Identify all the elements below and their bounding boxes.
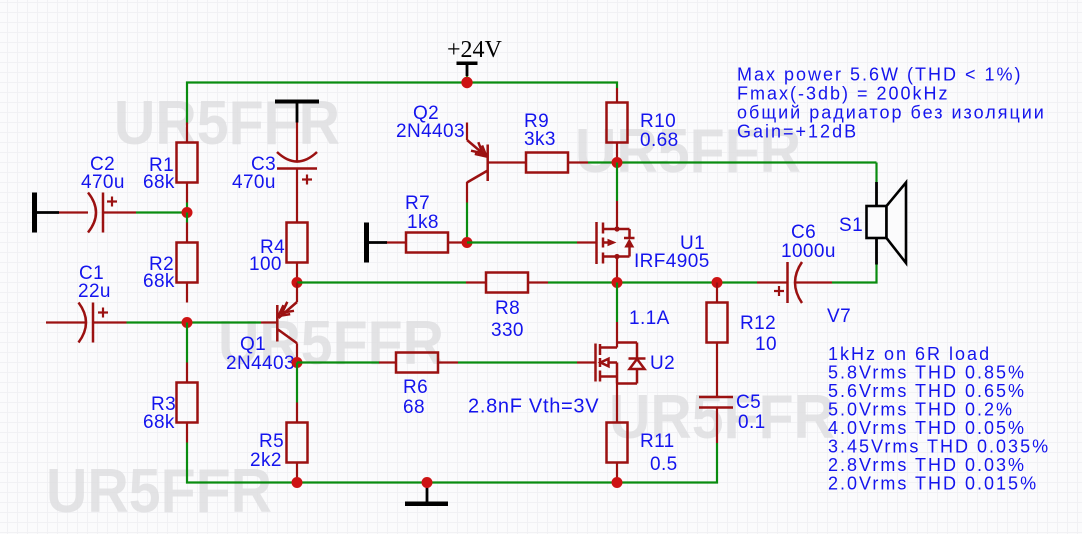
svg-text:IRF4905: IRF4905 — [634, 251, 710, 272]
wire gate net to U1 — [467, 241, 577, 243]
junction node B (R4/Q1 emitter/R8) — [292, 277, 303, 288]
svg-text:R6: R6 — [403, 377, 428, 398]
wire R6 to U2 gate — [458, 361, 577, 363]
svg-text:68k: 68k — [143, 172, 175, 193]
svg-text:UR5FFR: UR5FFR — [114, 89, 340, 158]
svg-text:общий радиатор без изоляции: общий радиатор без изоляции — [737, 102, 1046, 122]
resistor R7 — [387, 233, 467, 253]
svg-text:0.68: 0.68 — [640, 130, 679, 151]
wire top +24V rail — [187, 83, 617, 123]
svg-text:68k: 68k — [143, 271, 175, 292]
svg-text:1.1A: 1.1A — [629, 308, 670, 329]
svg-text:3k3: 3k3 — [524, 129, 556, 150]
op-amp U1 MOSFET IRF4905 — [597, 201, 635, 283]
junction node C — [182, 317, 193, 328]
svg-text:V7: V7 — [827, 306, 851, 327]
svg-text:C6: C6 — [791, 222, 816, 243]
pin U1 gate — [577, 241, 596, 243]
svg-text:1kHz on 6R load: 1kHz on 6R load — [828, 344, 991, 364]
junction R5 bottom — [292, 477, 303, 488]
svg-text:3.45Vrms THD 0.035%: 3.45Vrms THD 0.035% — [828, 436, 1050, 456]
resistor R6 — [379, 353, 458, 373]
resistor R5 — [287, 403, 308, 483]
svg-text:2.0Vrms THD 0.015%: 2.0Vrms THD 0.015% — [828, 473, 1038, 493]
transistor Q1 — [261, 283, 297, 363]
svg-text:5.0Vrms THD 0.2%: 5.0Vrms THD 0.2% — [828, 399, 1014, 419]
transistor U2 MOSFET — [596, 322, 646, 423]
resistor R3 — [177, 363, 198, 443]
transistor Q2 — [467, 123, 526, 203]
svg-text:Max power 5.6W (THD < 1%): Max power 5.6W (THD < 1%) — [737, 64, 1023, 84]
resistor R11 — [607, 423, 628, 483]
annotation block 2 — [828, 344, 1050, 494]
junction +24V rail — [461, 77, 472, 88]
wire U1 drain — [616, 163, 618, 202]
svg-text:100: 100 — [249, 254, 282, 275]
wire Q1 collector net — [297, 361, 379, 363]
svg-text:Fmax(-3db) = 200kHz: Fmax(-3db) = 200kHz — [737, 83, 950, 103]
resistor R8 — [466, 273, 548, 293]
capacitor C6 — [757, 262, 832, 303]
junction node A — [182, 207, 193, 218]
svg-text:R8: R8 — [495, 298, 520, 319]
svg-text:R7: R7 — [405, 193, 430, 214]
svg-text:0.5: 0.5 — [650, 454, 678, 475]
svg-text:R5: R5 — [259, 431, 284, 452]
resistor R9 — [526, 153, 588, 173]
wire net N162 (R9/R10/speaker) — [588, 161, 877, 163]
svg-text:2k2: 2k2 — [250, 450, 282, 471]
svg-text:22u: 22u — [78, 281, 111, 302]
svg-text:C5: C5 — [736, 392, 761, 413]
svg-text:2N4403: 2N4403 — [396, 121, 465, 142]
svg-text:330: 330 — [491, 320, 524, 341]
wire to speaker top — [875, 163, 877, 183]
speaker S1 — [867, 182, 907, 265]
capacitor C5 — [699, 397, 733, 443]
svg-text:R12: R12 — [740, 313, 776, 334]
svg-text:2.8nF Vth=3V: 2.8nF Vth=3V — [468, 396, 599, 418]
input terminal (R7 left) — [364, 223, 387, 263]
svg-text:S1: S1 — [839, 215, 863, 236]
wire Q2 collector to gate net — [466, 203, 468, 243]
wire C2 to node A — [136, 211, 187, 213]
resistor R10 — [607, 88, 628, 163]
svg-text:68k: 68k — [143, 412, 175, 433]
wire C1 to node C — [127, 321, 262, 323]
junction N282 at R12 — [712, 277, 723, 288]
wire R5 top — [296, 363, 298, 403]
svg-text:0.1: 0.1 — [738, 412, 766, 433]
svg-text:U2: U2 — [650, 353, 675, 374]
capacitor C3 — [277, 123, 317, 223]
svg-text:UR5FFR: UR5FFR — [46, 457, 272, 526]
pin U2 gate — [577, 361, 595, 363]
junction gate net — [462, 237, 473, 248]
junction N282 at U1 source — [612, 277, 623, 288]
svg-text:470u: 470u — [81, 172, 125, 193]
svg-text:68: 68 — [403, 397, 425, 418]
junction ground — [422, 477, 433, 488]
ground symbol C3 top — [275, 100, 319, 123]
svg-text:470u: 470u — [232, 172, 276, 193]
input terminal IN2 (C2 left) — [32, 193, 59, 233]
wire node C down — [186, 323, 188, 363]
svg-text:5.6Vrms THD 0.65%: 5.6Vrms THD 0.65% — [828, 381, 1026, 401]
resistor R2 — [177, 223, 198, 303]
wire U2 drain — [616, 283, 618, 323]
capacitor C1 — [46, 303, 127, 343]
svg-text:2.8Vrms THD 0.03%: 2.8Vrms THD 0.03% — [828, 455, 1026, 475]
resistor R4 — [287, 223, 308, 283]
power +24V symbol — [447, 37, 503, 83]
svg-text:R11: R11 — [640, 431, 675, 452]
resistor R1 — [177, 123, 198, 203]
wire main output net N282 — [297, 264, 877, 283]
svg-text:1000u: 1000u — [781, 241, 836, 262]
svg-text:10: 10 — [755, 334, 777, 355]
svg-text:Q1: Q1 — [240, 334, 266, 355]
svg-text:1k8: 1k8 — [407, 212, 439, 233]
svg-text:2N4403: 2N4403 — [226, 353, 295, 374]
wire R1 to node A — [186, 203, 188, 213]
resistor R12 — [707, 283, 728, 398]
junction node N162 — [612, 157, 623, 168]
junction R11 bottom — [612, 477, 623, 488]
svg-text:R10: R10 — [640, 111, 676, 132]
svg-text:5.8Vrms THD 0.85%: 5.8Vrms THD 0.85% — [828, 362, 1026, 382]
wire node A to R2 — [186, 213, 188, 223]
ground symbol — [405, 483, 448, 507]
svg-text:Gain=+12dB: Gain=+12dB — [737, 121, 858, 141]
wire R3 to bottom rail — [187, 443, 717, 483]
capacitor C2 — [59, 193, 136, 233]
junction Q1 collector node — [292, 357, 303, 368]
svg-text:4.0Vrms THD 0.05%: 4.0Vrms THD 0.05% — [828, 418, 1026, 438]
annotation block 1 — [737, 64, 1046, 141]
svg-text:+24V: +24V — [447, 37, 503, 63]
